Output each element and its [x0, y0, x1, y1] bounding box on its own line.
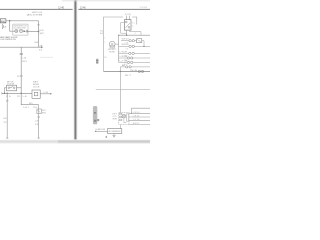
row G connector pair — [120, 66, 150, 72]
wire W1 top feed — [6, 20, 39, 22]
svg-text:1 5: 1 5 — [132, 23, 134, 25]
fuse F1 below J/B — [2, 24, 7, 29]
wire feed into box — [96, 130, 107, 132]
small ref box — [97, 119, 99, 121]
solenoid SL1 box — [32, 90, 40, 98]
cluster output wire 1 — [129, 112, 150, 114]
svg-text:DOME FUSE: DOME FUSE — [95, 129, 105, 131]
wire V1 vertical — [38, 21, 40, 47]
svg-text:SW: SW — [112, 118, 117, 120]
svg-text:2: 2 — [132, 26, 133, 28]
bottom bus BB — [104, 70, 151, 72]
svg-text:1J 2J: 1J 2J — [125, 14, 131, 16]
ground G1 end mark — [1, 92, 3, 95]
cluster output wire 2 — [129, 116, 150, 118]
lamp L1 in ECU — [15, 29, 18, 32]
svg-text:P 6: P 6 — [6, 96, 11, 98]
connector crossing C2 ticks — [20, 53, 23, 54]
svg-text:B5: B5 — [29, 103, 33, 105]
wire cluster to box below — [119, 125, 121, 129]
resistor box RB1 — [137, 39, 142, 43]
svg-text:3 8: 3 8 — [126, 43, 128, 45]
bus H2 — [2, 92, 32, 94]
svg-text:HORN: HORN — [109, 51, 115, 53]
ref block small — [96, 59, 99, 64]
svg-text:P5: P5 — [17, 96, 20, 98]
wire VD drop from bottom bus — [119, 71, 121, 112]
svg-text:AM1: AM1 — [1, 20, 6, 23]
horn H speaker — [109, 41, 115, 48]
svg-text:1: 1 — [104, 42, 105, 44]
svg-text:SYSTEM: SYSTEM — [139, 7, 147, 9]
bottom bus connector pair — [138, 70, 144, 72]
row C connector pair — [119, 45, 150, 47]
ignition key box U4 — [108, 129, 122, 134]
junction block J/B box — [0, 19, 6, 24]
svg-text:4 6: 4 6 — [126, 48, 128, 50]
wire W5 switch right leg — [17, 87, 22, 89]
connector ticks on V3 — [6, 99, 8, 102]
ECU big box U2 — [104, 17, 137, 71]
wire HX cross horizontal — [96, 88, 150, 90]
svg-text:W-R 2G: W-R 2G — [122, 39, 130, 41]
wire relay pin2 down — [130, 30, 141, 35]
wire W3 ECU output — [28, 31, 39, 33]
diode D1 arrow — [24, 30, 26, 32]
svg-text:L-B 1: L-B 1 — [23, 107, 29, 109]
node JB — [118, 35, 119, 36]
svg-text:B-W: B-W — [40, 30, 44, 32]
cluster output wire 3 — [129, 120, 150, 122]
page gutter seam — [73, 0, 77, 142]
svg-text:14: 14 — [104, 57, 106, 59]
wire relay pin1 down — [126, 30, 128, 35]
node drop junction — [120, 71, 121, 72]
node J5 — [21, 93, 22, 94]
svg-text:LOCK: LOCK — [33, 86, 40, 88]
lamp L2 in ECU — [19, 29, 22, 32]
node J1 junction dot — [9, 20, 11, 22]
connector arrow A3 — [95, 130, 97, 132]
wire horn to bus — [115, 43, 119, 45]
bus VB vertical — [118, 35, 120, 62]
row E connector pair — [119, 57, 150, 59]
wire V4 lower — [38, 105, 40, 139]
pin number labels under rows — [124, 33, 135, 66]
wire W6 solenoid out — [40, 93, 50, 95]
svg-text:(A/T): (A/T) — [40, 32, 45, 35]
wire relay left stub — [121, 23, 127, 34]
connector ticks on V4 — [38, 116, 40, 119]
cluster output wire 4 — [129, 123, 150, 125]
svg-text:14: 14 — [39, 50, 42, 52]
wire V3 down-left long — [6, 93, 8, 139]
node J3 — [4, 93, 5, 94]
connector tick on V1 — [37, 23, 39, 26]
connector scan capsule — [93, 106, 97, 124]
svg-text:L-R 15: L-R 15 — [133, 116, 140, 118]
svg-text:B-W 17: B-W 17 — [133, 123, 140, 125]
svg-text:22: 22 — [3, 122, 6, 124]
svg-text:KEY REMINDER: KEY REMINDER — [109, 131, 121, 133]
top scan edge line — [62, 0, 150, 2]
svg-text:7 14: 7 14 — [124, 60, 127, 62]
label security horn — [108, 49, 117, 53]
svg-text:8 13: 8 13 — [124, 64, 127, 66]
wire V2 lower + corner — [21, 93, 39, 104]
pin labels inside box left — [104, 37, 105, 43]
svg-text:4: 4 — [135, 33, 136, 35]
wire W2 drop into ECU — [10, 21, 15, 31]
svg-text:P6: P6 — [17, 76, 20, 78]
node J4 — [7, 93, 8, 94]
header rule left page — [0, 8, 73, 11]
faint scan streak — [40, 56, 53, 59]
svg-text:2F 7: 2F 7 — [125, 75, 131, 77]
wire W4 switch left leg — [5, 88, 7, 94]
svg-text:18: 18 — [35, 124, 38, 126]
ground G2 under box — [112, 133, 115, 137]
svg-text:5: 5 — [104, 37, 105, 39]
wire V2 vertical — [20, 47, 22, 93]
node J2 junction dot — [38, 31, 40, 33]
svg-text:B-W: B-W — [35, 42, 39, 44]
node JC — [143, 46, 144, 47]
svg-text:2 16: 2 16 — [124, 55, 127, 57]
svg-text:SW: SW — [42, 112, 46, 114]
bottom scan shadow band — [0, 139, 150, 144]
V3 bottom tick — [6, 137, 9, 139]
node JA — [126, 35, 127, 36]
relay RL1 pins up — [127, 16, 130, 20]
tick mark near bottom — [106, 136, 107, 138]
relay RL1 box — [124, 20, 131, 30]
svg-text:IK2: IK2 — [22, 61, 27, 63]
connector crossing C3 ticks — [20, 74, 23, 77]
svg-text:12-45: 12-45 — [58, 5, 64, 9]
V4 bottom tick — [37, 137, 40, 139]
shift lock ECU box U1 — [13, 24, 28, 35]
wire H1 main horizontal — [0, 46, 41, 48]
key cylinder cluster box U3 — [119, 113, 129, 125]
wire row A — [119, 34, 150, 36]
svg-text:L-W 14: L-W 14 — [133, 112, 140, 114]
key switch SW2 — [37, 109, 41, 114]
node J6 — [131, 113, 132, 114]
row B connector pair — [121, 40, 137, 42]
connector arrow A1 — [41, 46, 43, 48]
switch SW1 box — [7, 85, 17, 91]
wire row B right — [142, 41, 144, 47]
svg-text:12-46: 12-46 — [80, 5, 86, 9]
row F connector pair — [119, 61, 150, 63]
svg-text:LOCK CONTROL SYS: LOCK CONTROL SYS — [0, 39, 16, 41]
svg-text:10: 10 — [100, 33, 104, 35]
svg-text:L-W: L-W — [43, 92, 48, 94]
svg-text:(A/T) SYSTEM: (A/T) SYSTEM — [27, 14, 43, 17]
row D connector pair — [119, 52, 150, 54]
contact K1 marks — [26, 30, 28, 33]
connector arrow A2 — [50, 93, 52, 95]
header rule right page — [78, 8, 150, 11]
svg-text:L-Y 16: L-Y 16 — [133, 119, 140, 121]
wire top right entering cluster — [132, 108, 151, 113]
